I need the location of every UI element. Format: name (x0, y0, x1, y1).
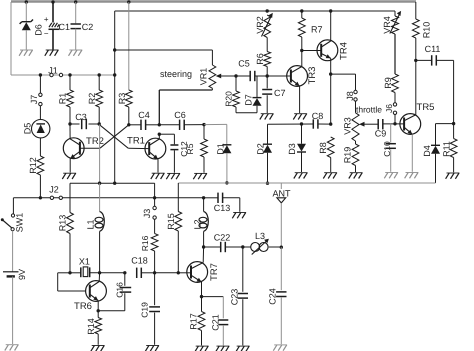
wire supply link to J2 rail (154, 183, 156, 198)
wire R12 to J2 rail (39, 175, 41, 198)
diode D2 (263, 143, 272, 145)
wire C8 corner down (267, 124, 269, 144)
wire R9 to J6 (394, 93, 396, 103)
switch SW1 (11, 214, 14, 217)
svg-text:C11: C11 (425, 44, 441, 54)
svg-text:R17: R17 (188, 313, 198, 330)
node TR1 branch to TR1-base supply (99, 125, 101, 184)
resistor R14 (97, 311, 99, 318)
svg-text:L1: L1 (86, 219, 96, 229)
resistor R15 (175, 212, 182, 232)
ground C19 (146, 345, 159, 347)
transistor TR4 (317, 40, 338, 61)
svg-text:TR6: TR6 (74, 301, 92, 312)
svg-text:TR1: TR1 (127, 136, 145, 147)
wire TR3 emitter (291, 79, 300, 86)
wire X1 loop left (58, 272, 70, 274)
wire TR2 base stub (80, 147, 100, 149)
svg-text:ANT: ANT (273, 189, 292, 199)
svg-text:C18: C18 (131, 256, 148, 266)
wire C12 to ground (173, 150, 175, 172)
svg-text:C23: C23 (229, 289, 239, 306)
wire cross-coupling right-to-left (100, 125, 129, 148)
transistor TR1 (145, 138, 166, 159)
wire supply link bus (70, 182, 155, 184)
diode D7 (256, 106, 258, 113)
wire J2 rail to SW1 (12, 198, 14, 214)
wire ANT bus (178, 182, 435, 184)
potentiometer VR3 (352, 113, 359, 141)
wire C2 to ground (75, 29, 77, 50)
ground TR5 (406, 172, 419, 174)
svg-text:R8: R8 (318, 142, 328, 154)
wire C10 to ground (390, 149, 392, 171)
ground TR2 (63, 172, 76, 174)
wire TR6 collector (90, 282, 99, 288)
wire D6 to ground (25, 30, 27, 49)
wire TR3 collector (291, 67, 302, 73)
wire TR5 base (383, 123, 404, 125)
wire R10 to C11 node (415, 38, 417, 60)
capacitor C13 (204, 197, 218, 199)
inductor L1 (99, 183, 101, 211)
svg-text:D6: D6 (33, 24, 43, 36)
wire TR2 collector (70, 139, 80, 145)
wire VR1 bottom lead (211, 88, 213, 90)
svg-text:C13: C13 (214, 203, 231, 213)
antenna ANT (280, 183, 282, 189)
svg-text:D1: D1 (215, 143, 225, 155)
resistor R3 (125, 90, 132, 107)
ground R5 (194, 172, 207, 174)
wire D3 to ground (301, 152, 303, 172)
wire TR5 collector (404, 115, 416, 121)
capacitor C12 (159, 133, 174, 135)
wire VR1 to C4/C6 node (158, 90, 160, 125)
wire R6 to node (266, 67, 268, 77)
ground C12 (167, 172, 180, 174)
transistor TR5 (400, 114, 421, 135)
svg-text:R19: R19 (343, 147, 353, 164)
svg-text:C5: C5 (238, 59, 250, 69)
svg-text:R6: R6 (255, 53, 265, 65)
svg-text:C1: C1 (59, 22, 71, 32)
wire C7 to ground (266, 95, 268, 113)
wire D1 vertical (226, 124, 228, 144)
svg-text:C19: C19 (139, 302, 149, 318)
svg-text:D4: D4 (422, 145, 432, 157)
wire C23 to ground (242, 299, 244, 345)
capacitor C2 (71, 23, 81, 25)
wire TR2 emitter (70, 151, 80, 158)
svg-text:L3: L3 (255, 231, 265, 241)
svg-text:R20: R20 (224, 91, 234, 107)
node J2 rail end (202, 196, 205, 199)
wire D4 branch (436, 123, 454, 125)
wire TR6 emitter (90, 294, 98, 300)
ground R11 (447, 172, 460, 174)
node R3 top bus feed (127, 0, 130, 3)
capacitor C19 (154, 273, 156, 305)
svg-text:C22: C22 (214, 233, 231, 243)
wire R13 drop (69, 183, 71, 212)
wire TR1 collector (149, 139, 159, 145)
svg-text:TR5: TR5 (417, 102, 435, 113)
svg-text:R13: R13 (58, 215, 68, 232)
resistor R17 (201, 297, 203, 312)
svg-text:R1: R1 (58, 93, 68, 105)
wire J7 to D5 (39, 106, 41, 120)
ground C10 (385, 172, 398, 174)
wire cross-coupling left-to-right (99, 125, 128, 149)
svg-text:R3: R3 (117, 93, 127, 105)
wire battery to ground (12, 276, 14, 344)
resistor R19 (355, 141, 357, 144)
capacitor C10 (390, 124, 392, 143)
wire R13 to X1 node (69, 234, 71, 273)
svg-text:R7: R7 (311, 25, 323, 35)
svg-text:R10: R10 (422, 22, 432, 39)
ground R17 (196, 345, 209, 347)
ground VR3 R19 (350, 172, 363, 174)
svg-text:C16: C16 (115, 282, 125, 298)
wire J3 to R16 (154, 219, 156, 233)
wire top line corner to VR4 (394, 11, 396, 16)
wire R11 to ground (453, 158, 455, 173)
svg-text:−: − (44, 29, 49, 38)
wire node to TR3 base (267, 75, 291, 77)
wire top distribution (115, 10, 395, 12)
resistor R2 (96, 90, 103, 107)
resistor R10 (412, 19, 419, 38)
wire R15 to TR7 base wire (177, 231, 179, 273)
wire top bus right corner (415, 2, 417, 19)
wire C16 to emitter (124, 293, 126, 311)
wire R17 to ground (201, 331, 203, 346)
ground C7 (261, 113, 274, 115)
capacitor C7 (266, 76, 268, 88)
potentiometer VR1 (209, 65, 216, 88)
svg-text:SW1: SW1 (15, 213, 25, 233)
wire R7 to TR3 collector (301, 37, 303, 51)
wire R5 to ground (203, 157, 205, 173)
wire J1 rail (11, 74, 115, 76)
capacitor C21 (202, 296, 224, 298)
wire R1 to TR2 collector node (69, 107, 71, 124)
wire TR5 emitter (404, 127, 412, 134)
transistor TR7 (187, 262, 208, 283)
wire C1 to ground (52, 29, 54, 49)
capacitor C24 (280, 247, 282, 290)
svg-text:TR7: TR7 (209, 263, 220, 281)
svg-text:R5: R5 (185, 143, 195, 154)
wire R1 feed (69, 75, 71, 90)
wire R2 to C3 node (98, 107, 100, 124)
wire VR3 wiper (359, 122, 365, 127)
diode D4 (431, 144, 440, 146)
svg-text:R12: R12 (28, 157, 38, 174)
svg-text:C6: C6 (174, 110, 186, 120)
node R7 feed (300, 9, 303, 12)
wire D1 to ANT rail (226, 153, 228, 183)
resistor R13 (67, 213, 74, 234)
wire TR7 emitter (191, 275, 202, 282)
svg-text:C9: C9 (375, 129, 387, 139)
svg-text:J7: J7 (29, 95, 39, 105)
svg-text:J6: J6 (384, 104, 394, 113)
svg-text:L2: L2 (193, 219, 203, 229)
svg-text:R11: R11 (441, 141, 451, 157)
battery 9V (3, 271, 19, 273)
wire TR3 to TR4 base (302, 50, 321, 52)
wire C6 node to D1 (204, 123, 227, 125)
wire R2 feed (98, 75, 100, 90)
wire D4 to ANT rail (435, 154, 437, 183)
wire VR4 to R9 (394, 34, 396, 74)
svg-text:TR3: TR3 (307, 67, 318, 85)
ground C1 (46, 49, 59, 51)
wire J1 to J7 (39, 75, 41, 93)
transistor TR3 (287, 66, 308, 87)
wire R19 to ground (355, 166, 357, 173)
potentiometer VR4 (391, 16, 398, 34)
svg-text:throttle: throttle (356, 105, 382, 115)
wire R14 to ground (97, 334, 99, 345)
svg-text:C4: C4 (138, 110, 150, 120)
svg-text:R9: R9 (383, 77, 393, 89)
wire R16 to node (154, 251, 156, 273)
wire D5 to R12 (39, 138, 41, 156)
svg-text:C2: C2 (82, 22, 94, 32)
svg-text:C7: C7 (274, 88, 286, 98)
capacitor C16 (123, 271, 126, 274)
svg-text:D5: D5 (23, 123, 33, 135)
diode D5 (LED indicator) (32, 120, 50, 138)
wire steering feed top (115, 49, 213, 51)
inductor L2 (203, 198, 205, 212)
wire TR4 collector (321, 41, 331, 47)
wire SW1 to battery (12, 231, 14, 272)
wire R20 bottom to D7 (235, 107, 237, 113)
ground D3 (295, 172, 308, 174)
svg-text:D7: D7 (243, 94, 253, 106)
svg-text:VR3: VR3 (343, 117, 353, 135)
wire J6 to TR5 base node (394, 114, 396, 123)
resistor R12 (37, 156, 44, 175)
resistor R7 (298, 18, 305, 37)
wire TR5 collector riser (415, 60, 417, 114)
potentiometer VR2 (264, 15, 271, 38)
wire R8 to ground (330, 158, 332, 173)
connector J3 (154, 198, 156, 207)
ground C13 (233, 212, 246, 214)
wire TR7 collector (191, 263, 203, 269)
wire TR1 base stub (128, 147, 149, 149)
wire VR2 to R6 (266, 38, 268, 52)
node top bus to C2 (74, 0, 77, 3)
node top bus to D6 (25, 0, 28, 3)
diode D6 (zener) (22, 21, 31, 23)
ground TR3 (294, 113, 307, 115)
resistor R20 (235, 76, 237, 91)
diode D3 (301, 124, 303, 144)
resistor R9 (392, 74, 399, 93)
ground TR1 (152, 172, 165, 174)
svg-text:VR1: VR1 (199, 68, 209, 86)
node J1 rail junctions (39, 73, 42, 76)
ground C2 (69, 49, 82, 51)
transistor TR2 (63, 138, 84, 159)
wire R3 to C4 node (128, 107, 130, 125)
svg-text:R14: R14 (86, 318, 96, 335)
wire base feed TR7 (178, 272, 191, 274)
capacitor C23 (242, 247, 244, 292)
wire C21 to ground (222, 326, 224, 346)
svg-text:J3: J3 (142, 209, 152, 219)
resistor R6 (264, 52, 271, 67)
wire D2 to ANT rail (267, 153, 269, 184)
ground C24 (274, 344, 287, 346)
ground C23 (237, 345, 250, 347)
ground battery (6, 344, 19, 346)
wire node to R15 (155, 272, 179, 274)
ground R14 (92, 345, 105, 347)
svg-text:R15: R15 (166, 213, 176, 230)
power rail top bus (11, 0, 416, 2)
svg-text:9V: 9V (17, 269, 27, 280)
wire TR4 emitter to J8 (331, 73, 356, 75)
node TR4 collector (329, 9, 332, 12)
svg-text:X1: X1 (79, 256, 90, 266)
svg-text:C21: C21 (210, 314, 220, 331)
wire C11 to R11 (453, 60, 455, 138)
svg-text:R2: R2 (87, 93, 97, 105)
svg-text:D2: D2 (256, 143, 266, 155)
svg-text:C24: C24 (268, 288, 278, 305)
svg-text:TR4: TR4 (338, 42, 349, 60)
ground D6 (20, 49, 33, 51)
wire C19 to ground (154, 313, 156, 345)
svg-text:R16: R16 (140, 235, 150, 251)
node TR6 collector junction (98, 271, 101, 274)
wire VR1 top lead (211, 50, 213, 65)
resistor R16 (151, 234, 158, 252)
wire left edge of J1 box (10, 2, 12, 75)
wire TR1 emitter (149, 152, 158, 159)
svg-text:+: + (44, 15, 49, 24)
wire C24 to ground (280, 298, 282, 345)
ground R8 (324, 172, 337, 174)
resistor R1 (67, 90, 74, 107)
wire main supply vertical (114, 11, 116, 183)
resistor R5 (203, 125, 205, 139)
diode D1 (222, 144, 231, 146)
wire J8 to VR3 (355, 101, 357, 113)
svg-text:J2: J2 (49, 185, 59, 195)
resistor R11 (450, 139, 457, 158)
resistor R8 (327, 137, 334, 158)
transistor TR6 (86, 281, 107, 302)
wire VR1 wiper (216, 74, 222, 79)
node VR2 feed (266, 9, 269, 12)
svg-text:TR2: TR2 (86, 136, 104, 147)
wire R15 riser (177, 183, 179, 212)
node top bus to C1 (51, 0, 54, 3)
svg-text:D3: D3 (287, 143, 297, 155)
svg-text:steering: steering (160, 69, 192, 79)
wire TR4 emitter (321, 54, 331, 59)
ground C21 (217, 345, 230, 347)
